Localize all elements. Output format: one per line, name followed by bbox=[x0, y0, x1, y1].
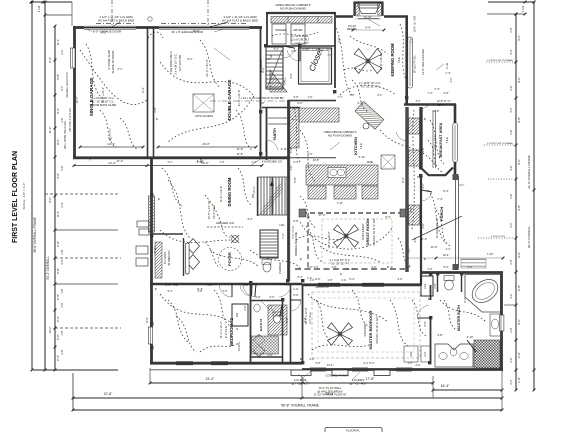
svg-text:5'-4": 5'-4" bbox=[349, 277, 354, 281]
door arc pantry bbox=[265, 140, 267, 152]
svg-text:17'-8": 17'-8" bbox=[366, 377, 375, 381]
svg-text:2'-8": 2'-8" bbox=[509, 193, 513, 198]
svg-text:3'-0": 3'-0" bbox=[416, 100, 421, 103]
dash curve kitchen bbox=[300, 130, 316, 182]
dash curve single garage 3 bbox=[120, 118, 138, 150]
stair up arrow bbox=[271, 182, 273, 212]
dash curve: hall bbox=[412, 110, 414, 230]
dash curve: keeping 2 bbox=[400, 24, 406, 80]
svg-text:8'-4": 8'-4" bbox=[297, 275, 302, 279]
svg-text:5'-1": 5'-1" bbox=[60, 85, 64, 90]
svg-text:5'-0": 5'-0" bbox=[285, 317, 289, 322]
right extension y305 bbox=[504, 304, 516, 306]
svg-text:3'-6": 3'-6" bbox=[350, 94, 355, 97]
svg-text:5'-8": 5'-8" bbox=[421, 147, 425, 152]
wall: utility left bbox=[266, 13, 268, 46]
svg-text:HANDRAIL PER CODE: HANDRAIL PER CODE bbox=[295, 231, 298, 256]
extension line y230 bbox=[55, 229, 118, 231]
dash curve great 5 bbox=[306, 226, 322, 262]
svg-text:11'-8": 11'-8" bbox=[237, 152, 243, 156]
svg-text:5'-8": 5'-8" bbox=[60, 165, 64, 170]
svg-text:WINE: WINE bbox=[367, 161, 374, 164]
closet hatched walls bbox=[299, 48, 332, 84]
svg-text:WASHER: WASHER bbox=[275, 28, 286, 32]
dash curve bed2 b bbox=[200, 342, 240, 352]
svg-text:2'-4": 2'-4" bbox=[56, 355, 60, 361]
svg-text:1'-6": 1'-6" bbox=[308, 96, 313, 99]
svg-text:3'-0": 3'-0" bbox=[427, 267, 432, 271]
svg-text:3'-1": 3'-1" bbox=[117, 67, 122, 71]
svg-text:1/2" GYP BD: 1/2" GYP BD bbox=[178, 55, 182, 71]
mbath window right bbox=[500, 315, 504, 331]
svg-text:5'-0": 5'-0" bbox=[385, 215, 390, 219]
svg-text:5'-0": 5'-0" bbox=[297, 101, 302, 105]
dim below garage wall 14-4 bbox=[74, 165, 147, 167]
under-stair coat closet bbox=[270, 70, 287, 92]
svg-text:BATH #2: BATH #2 bbox=[259, 319, 263, 332]
stair lower flight bbox=[260, 230, 278, 258]
svg-text:7'-4": 7'-4" bbox=[427, 91, 432, 95]
garage door: double 16x8 opening bbox=[159, 25, 249, 27]
svg-text:11'-4" x 13'-2": 11'-4" x 13'-2" bbox=[219, 321, 223, 338]
wall: clos bottom bbox=[250, 356, 282, 358]
dim tick marks left third bbox=[54, 25, 57, 28]
stoop steps bbox=[137, 221, 149, 227]
svg-text:10'-8": 10'-8" bbox=[313, 158, 320, 162]
svg-text:12'-5" x 13'-10": 12'-5" x 13'-10" bbox=[207, 201, 211, 220]
dim: garage interior 16-0 bbox=[158, 146, 256, 148]
svg-text:2'-8": 2'-8" bbox=[60, 349, 64, 354]
entry steps bbox=[136, 246, 148, 254]
svg-text:5'-9": 5'-9" bbox=[414, 237, 417, 242]
svg-text:5'-0" x 5'-4": 5'-0" x 5'-4" bbox=[292, 226, 295, 239]
garage slope arrows bbox=[109, 128, 111, 140]
dash curve: double garage wiring 1 bbox=[160, 62, 254, 96]
niche cabinet right of island bbox=[381, 155, 395, 169]
dash curve great room 2 bbox=[296, 236, 346, 240]
svg-text:14'-8": 14'-8" bbox=[431, 245, 438, 249]
svg-text:FLUE: FLUE bbox=[446, 62, 449, 69]
svg-text:2 x 11 R 16 CL: 2 x 11 R 16 CL bbox=[291, 34, 309, 38]
wall: pantry left x266 bbox=[266, 108, 268, 160]
wall: utility bottom bbox=[267, 45, 336, 47]
svg-text:8'-0" GARAGE DOOR: 8'-0" GARAGE DOOR bbox=[93, 30, 121, 34]
svg-text:ARCHD C/O: ARCHD C/O bbox=[315, 286, 329, 289]
wall: kitchen top y100 segment bbox=[288, 100, 336, 102]
svg-text:NO PUSH DOWNS: NO PUSH DOWNS bbox=[280, 7, 306, 11]
windows bed2 bottom bbox=[176, 361, 193, 363]
fan: master bedroom bbox=[340, 334, 353, 345]
window: keeping right bbox=[408, 37, 413, 88]
fireplace firebox bbox=[358, 5, 380, 14]
svg-text:W/ SIDELITES: W/ SIDELITES bbox=[169, 250, 171, 266]
garage door: single 8-0 opening bbox=[84, 25, 136, 27]
svg-text:14'-4": 14'-4" bbox=[108, 161, 116, 165]
svg-text:11'-8" x 21'-2": 11'-8" x 21'-2" bbox=[101, 87, 105, 103]
dash curve bed2 c bbox=[168, 300, 188, 342]
dash curve bed2 bbox=[160, 294, 238, 330]
dim line: top-left horizontal bbox=[31, 1, 72, 3]
dim line: top-right horizontal bbox=[488, 1, 534, 3]
fireplace hearth line bbox=[356, 15, 381, 17]
wall: breakfast bottom diagonal bbox=[421, 168, 429, 176]
hall walls inner lines bbox=[405, 107, 407, 272]
wall: keeping top right segment bbox=[384, 15, 408, 17]
svg-text:4 1/2: 4 1/2 bbox=[37, 5, 41, 12]
svg-text:WALL BTWN HSE & GAR: WALL BTWN HSE & GAR bbox=[64, 121, 67, 149]
leader arrows misc bbox=[214, 48, 230, 60]
svg-text:4 1/2: 4 1/2 bbox=[521, 5, 525, 12]
svg-text:3'-0": 3'-0" bbox=[509, 107, 513, 112]
svg-text:7'-4": 7'-4" bbox=[437, 197, 443, 201]
svg-text:4'-0": 4'-0" bbox=[309, 357, 314, 361]
dim ticks right outer bbox=[533, 1, 536, 4]
svg-text:BREAKFAST AREA: BREAKFAST AREA bbox=[439, 122, 443, 157]
svg-text:2'-6": 2'-6" bbox=[290, 165, 293, 170]
svg-text:FIRST LEVEL FLOOR PLAN: FIRST LEVEL FLOOR PLAN bbox=[12, 151, 19, 243]
svg-text:16'-4": 16'-4" bbox=[443, 253, 450, 257]
partial sheet box bottom center bbox=[325, 428, 382, 432]
svg-text:2'-8": 2'-8" bbox=[267, 353, 272, 357]
dim line: right outer vertical bbox=[533, 2, 535, 390]
svg-text:MASTER BEDROOM: MASTER BEDROOM bbox=[368, 310, 373, 350]
svg-text:11'-10": 11'-10" bbox=[364, 15, 372, 19]
svg-text:5'-8": 5'-8" bbox=[316, 362, 321, 365]
svg-text:5'-4": 5'-4" bbox=[274, 48, 279, 51]
svg-text:2'-8": 2'-8" bbox=[328, 279, 333, 282]
dash curve bed2 d bbox=[176, 316, 196, 352]
right extension y179 dotted bbox=[488, 178, 514, 180]
dash curve breakfast 2 bbox=[428, 140, 442, 172]
bath2 walls bbox=[282, 300, 284, 363]
svg-text:4'-0": 4'-0" bbox=[423, 321, 427, 326]
svg-text:3'-0": 3'-0" bbox=[517, 77, 521, 83]
svg-text:4'-2": 4'-2" bbox=[56, 173, 60, 179]
beam dashdot line kitchen bbox=[210, 100, 336, 102]
porch slab line below bed2 bbox=[150, 369, 302, 371]
svg-text:2'-8": 2'-8" bbox=[509, 129, 513, 134]
svg-text:BEAMS: BEAMS bbox=[347, 27, 357, 31]
svg-text:3'-0": 3'-0" bbox=[517, 159, 521, 165]
svg-text:1'-6" x 2'-8": 1'-6" x 2'-8" bbox=[295, 41, 309, 45]
windows on great room bottom wall bbox=[318, 282, 340, 284]
bath2 tub hatched bbox=[268, 305, 287, 335]
svg-text:ATTIC ACCESS: ATTIC ACCESS bbox=[195, 115, 213, 118]
svg-text:7'-11": 7'-11" bbox=[337, 201, 343, 205]
dash curve master 4 bbox=[390, 300, 408, 346]
wall: porch left x421 lower bbox=[420, 176, 422, 272]
svg-text:2'-4": 2'-4" bbox=[60, 202, 64, 207]
windows master bottom bbox=[310, 367, 326, 369]
window: bed2 left bbox=[148, 327, 152, 344]
svg-text:12'-0" HIGH CEILING: 12'-0" HIGH CEILING bbox=[421, 49, 425, 75]
svg-text:9'-8" x 12'-4": 9'-8" x 12'-4" bbox=[433, 135, 437, 150]
svg-text:7'-1": 7'-1" bbox=[409, 37, 413, 42]
svg-text:6'-0": 6'-0" bbox=[372, 266, 377, 269]
svg-text:6'-2": 6'-2" bbox=[422, 183, 425, 188]
svg-text:5'-11": 5'-11" bbox=[359, 155, 366, 159]
dim line: top-left second level bbox=[45, 14, 72, 16]
svg-text:2 x 4 @ 16" O.C.: 2 x 4 @ 16" O.C. bbox=[174, 53, 178, 74]
porch columns below master bbox=[291, 370, 311, 376]
svg-text:C.O.: C.O. bbox=[293, 287, 299, 291]
dash curve entry bbox=[205, 242, 220, 268]
svg-text:17'-4": 17'-4" bbox=[443, 99, 450, 103]
bar cabinets hatched 1 bbox=[409, 118, 420, 134]
door arc hall-master bbox=[290, 299, 301, 301]
great room west colonnade dashed bbox=[307, 214, 309, 268]
bar cabinets hatched 3 bbox=[409, 205, 420, 225]
svg-text:1 1/2 x 11 1/4 LVL HDR W/ FLUS: 1 1/2 x 11 1/4 LVL HDR W/ FLUSH BM bbox=[240, 97, 283, 100]
dim tick top-right bbox=[524, 1, 527, 4]
svg-text:13'-6" x 15'-8": 13'-6" x 15'-8" bbox=[379, 54, 383, 71]
svg-text:CLO.: CLO. bbox=[409, 351, 413, 357]
wall: garage left exterior bbox=[73, 26, 76, 159]
bed2 sink oval bbox=[254, 304, 260, 312]
dash curve master 1 bbox=[308, 294, 388, 322]
svg-text:2'-0": 2'-0" bbox=[450, 77, 453, 82]
wall: garage bottom bbox=[73, 156, 290, 159]
svg-text:3'-6": 3'-6" bbox=[517, 252, 521, 258]
svg-text:12'-8": 12'-8" bbox=[433, 109, 440, 113]
extension line y194 dashed bbox=[45, 193, 120, 195]
dim line y398 bbox=[73, 397, 502, 399]
dim line y410 overall bbox=[73, 409, 502, 411]
svg-text:3'-0": 3'-0" bbox=[223, 290, 228, 293]
extension line y284 bbox=[55, 283, 118, 285]
wall: master left x302 bbox=[302, 285, 304, 363]
dash curve mbath 2 bbox=[444, 300, 456, 330]
tray ceiling dashed master bbox=[312, 292, 420, 358]
svg-text:8'-1": 8'-1" bbox=[378, 94, 383, 97]
svg-text:6'-8 ARCHED C/O: 6'-8 ARCHED C/O bbox=[262, 161, 282, 164]
right extension y62 dotted bbox=[486, 61, 516, 63]
svg-text:12' VAULTED C/P: 12' VAULTED C/P bbox=[435, 217, 439, 238]
svg-text:3'-0": 3'-0" bbox=[247, 217, 252, 221]
svg-text:2-6 HDRS: 2-6 HDRS bbox=[352, 378, 364, 382]
dash curve master 2 bbox=[312, 344, 372, 350]
svg-text:3'-4": 3'-4" bbox=[446, 248, 451, 251]
wall: kitchen/hall divider x288 bbox=[288, 100, 290, 281]
door arc bath2 bbox=[280, 305, 282, 316]
svg-text:DRYER: DRYER bbox=[293, 28, 302, 32]
svg-text:UP: UP bbox=[269, 54, 273, 58]
svg-text:DINING ROOM: DINING ROOM bbox=[227, 177, 232, 206]
dash curve kitchen 2 bbox=[380, 130, 436, 166]
wall: step y104 under keeping bbox=[404, 103, 456, 105]
svg-text:POWDER: POWDER bbox=[278, 262, 282, 274]
dash curve foyer bbox=[250, 250, 300, 268]
svg-text:9'-6": 9'-6" bbox=[48, 197, 52, 203]
garden tub platform bbox=[465, 275, 501, 313]
svg-text:2'-8": 2'-8" bbox=[291, 49, 296, 53]
svg-text:6'-0": 6'-0" bbox=[401, 177, 405, 182]
svg-text:5'-4": 5'-4" bbox=[165, 283, 170, 287]
svg-text:3'-0": 3'-0" bbox=[509, 222, 513, 227]
stair diagonal hatch overlay bbox=[259, 178, 283, 215]
svg-text:17'-0": 17'-0" bbox=[319, 213, 326, 217]
utility washer box bbox=[272, 24, 286, 44]
svg-text:1'-8": 1'-8" bbox=[60, 249, 64, 254]
door arc bed2 second leaf bbox=[251, 284, 253, 296]
svg-text:TILE: TILE bbox=[359, 143, 363, 149]
door arc porch bbox=[421, 190, 432, 192]
svg-text:6'-8": 6'-8" bbox=[207, 283, 212, 287]
wall: garage right / utility left bbox=[260, 27, 262, 158]
wall: bed2 left exterior bbox=[150, 284, 153, 364]
clo by master bbox=[421, 276, 433, 296]
closet door arc bbox=[299, 48, 301, 61]
entry door slab capsule bbox=[186, 243, 190, 274]
wall: dining/stair divider bbox=[257, 177, 259, 216]
svg-text:12 x 8 CRL PLT: 12 x 8 CRL PLT bbox=[291, 38, 310, 42]
attic access garage bbox=[193, 94, 214, 112]
dim vertical x302 bottom bbox=[301, 373, 303, 398]
svg-text:T.G. 10'-11" P.T.: T.G. 10'-11" P.T. bbox=[360, 85, 380, 89]
dim line: right inner vertical bbox=[515, 14, 517, 390]
svg-text:8'-4": 8'-4" bbox=[48, 57, 52, 63]
dim line: left second vertical bbox=[44, 2, 46, 370]
kitchen sink bbox=[328, 168, 346, 178]
stair block (dn) right of dining bbox=[258, 177, 287, 215]
utility cabinet dividers bbox=[287, 17, 289, 24]
svg-text:SCALE : 1/4" = 1'-0": SCALE : 1/4" = 1'-0" bbox=[22, 183, 26, 210]
svg-text:4 1/2 EXT S/S TO FRAME: 4 1/2 EXT S/S TO FRAME bbox=[487, 59, 513, 62]
dash curve keeping 6 bbox=[352, 80, 368, 112]
svg-text:13'-4": 13'-4" bbox=[327, 363, 334, 367]
svg-text:C.O.: C.O. bbox=[342, 279, 347, 282]
kitchen left cabinets (hatched) bbox=[290, 108, 300, 148]
svg-text:CEILING TO 11'-0" AFF: CEILING TO 11'-0" AFF bbox=[372, 218, 376, 246]
svg-text:1'-8": 1'-8" bbox=[517, 377, 521, 383]
svg-text:3'-8": 3'-8" bbox=[422, 223, 425, 228]
fireplace side hatch bbox=[356, 4, 360, 16]
hall strip x290 wall bbox=[290, 284, 292, 363]
kitchen stove diagonal bbox=[355, 101, 384, 129]
svg-text:2'-8": 2'-8" bbox=[509, 327, 513, 332]
wall: hall outer x421 bbox=[420, 107, 422, 168]
svg-text:12'-2": 12'-2" bbox=[75, 97, 79, 104]
door post squares bbox=[259, 110, 262, 113]
svg-text:9'-0" CLG: 9'-0" CLG bbox=[308, 312, 312, 323]
svg-text:@ 7'-10" HGT: @ 7'-10" HGT bbox=[350, 382, 367, 386]
centerline top x208 bbox=[207, 0, 209, 26]
svg-text:6'-1": 6'-1" bbox=[460, 184, 465, 187]
svg-text:31'-0" OVERALL FRAME: 31'-0" OVERALL FRAME bbox=[527, 155, 531, 189]
svg-text:12'-0": 12'-0" bbox=[437, 103, 444, 107]
svg-text:11'-4": 11'-4" bbox=[421, 237, 428, 241]
svg-text:3'-0": 3'-0" bbox=[408, 362, 413, 365]
dash curve dining bbox=[205, 195, 232, 237]
stairs to basement bbox=[266, 47, 283, 89]
dash curve master 6 bbox=[412, 300, 426, 336]
wall: breakfast right exterior bbox=[454, 104, 457, 174]
dash curve keeping 4 bbox=[350, 36, 388, 54]
svg-text:6'-1": 6'-1" bbox=[168, 161, 173, 164]
svg-text:16d RING NAILS: 16d RING NAILS bbox=[169, 51, 173, 72]
right extension y238 dotted bbox=[478, 237, 514, 239]
svg-text:W/ 2x12 PT SILL: W/ 2x12 PT SILL bbox=[414, 54, 417, 73]
diag leader great room bbox=[412, 216, 462, 240]
dim ticks y398 bbox=[72, 397, 75, 400]
svg-text:16 RISERS: 16 RISERS bbox=[260, 59, 263, 72]
powder room fixtures bbox=[263, 262, 271, 272]
dash curve dining 4 bbox=[162, 168, 182, 206]
svg-text:HALL: HALL bbox=[283, 77, 287, 85]
svg-text:17'-4" x 19'-0": 17'-4" x 19'-0" bbox=[327, 231, 331, 248]
svg-text:12'-8": 12'-8" bbox=[104, 392, 113, 396]
dash curve master 3 bbox=[316, 300, 330, 340]
svg-text:3'-8": 3'-8" bbox=[153, 107, 157, 112]
svg-text:PANTRY: PANTRY bbox=[273, 127, 277, 141]
svg-text:9'-8": 9'-8" bbox=[409, 207, 413, 212]
svg-text:KEEPING ROOM: KEEPING ROOM bbox=[390, 43, 395, 77]
svg-text:2'-8": 2'-8" bbox=[56, 241, 60, 247]
svg-text:13'-2": 13'-2" bbox=[48, 326, 52, 333]
svg-text:16'-8" LVL HDR: 16'-8" LVL HDR bbox=[414, 15, 417, 32]
svg-text:11'-4": 11'-4" bbox=[117, 159, 124, 163]
svg-text:4'-6": 4'-6" bbox=[397, 277, 402, 281]
svg-text:38'-0" OVERALL FRAME: 38'-0" OVERALL FRAME bbox=[33, 217, 37, 253]
leaders cluster 2 bbox=[300, 372, 310, 380]
svg-text:12'-0" x 17'-8": 12'-0" x 17'-8" bbox=[304, 307, 308, 324]
svg-text:2'-8": 2'-8" bbox=[443, 91, 448, 95]
svg-text:2x6 WALL W/ 1/2 GYP: 2x6 WALL W/ 1/2 GYP bbox=[66, 72, 69, 98]
svg-text:GREAT ROOM: GREAT ROOM bbox=[365, 218, 370, 246]
svg-text:2'-8": 2'-8" bbox=[243, 305, 247, 310]
dim tick marks left outer bbox=[31, 1, 34, 4]
wall: bed2 bottom bbox=[150, 362, 302, 365]
svg-text:3'-4": 3'-4" bbox=[337, 37, 341, 42]
svg-text:COVERED PORCH: COVERED PORCH bbox=[326, 374, 349, 378]
kitchen top cabinets (hatched) bbox=[299, 108, 339, 122]
svg-text:6'-0": 6'-0" bbox=[369, 361, 374, 365]
pantry shelves bbox=[268, 117, 287, 119]
dim keeping 9-4 bbox=[353, 29, 384, 31]
svg-text:5'-2": 5'-2" bbox=[174, 284, 179, 287]
svg-text:9'-4": 9'-4" bbox=[365, 26, 371, 30]
svg-text:20'-0" OVERALL: 20'-0" OVERALL bbox=[527, 226, 531, 249]
wall: foyer bottom y281 left part bbox=[150, 283, 302, 286]
junction circle garage bbox=[148, 17, 152, 21]
svg-text:5'-4": 5'-4" bbox=[56, 39, 60, 45]
svg-text:2'-0": 2'-0" bbox=[56, 334, 60, 340]
svg-text:1'-8": 1'-8" bbox=[60, 288, 64, 293]
svg-text:10'-0" CLG: 10'-0" CLG bbox=[212, 205, 216, 219]
bath2 toilet bbox=[274, 315, 281, 323]
dash curve great 3 bbox=[320, 246, 380, 262]
svg-text:16'-0": 16'-0" bbox=[193, 29, 200, 33]
front door diamonds bbox=[187, 239, 200, 254]
svg-text:11'-4" x 13'-0": 11'-4" x 13'-0" bbox=[219, 186, 223, 202]
porch corner posts bbox=[453, 174, 459, 180]
dim: garage interior 14-4 bbox=[80, 146, 143, 148]
svg-text:11'-2": 11'-2" bbox=[48, 127, 52, 134]
porch screen right bbox=[455, 176, 457, 268]
door arc utility bbox=[283, 46, 295, 48]
svg-text:14'-11": 14'-11" bbox=[253, 186, 256, 193]
svg-text:7'-1": 7'-1" bbox=[337, 95, 342, 99]
shower door diag bbox=[467, 340, 476, 352]
entry brick hatch lower bbox=[155, 242, 162, 278]
svg-text:3'-4": 3'-4" bbox=[60, 259, 64, 264]
wall: mbath right exterior bbox=[500, 274, 503, 370]
dim tick top-left bbox=[30, 1, 33, 4]
svg-text:2'-8": 2'-8" bbox=[56, 268, 60, 274]
svg-text:4 1/2 EXT S/S: 4 1/2 EXT S/S bbox=[491, 236, 505, 238]
dash curve: garage door loop bbox=[148, 32, 163, 38]
breakfast floor break line bbox=[432, 110, 434, 168]
